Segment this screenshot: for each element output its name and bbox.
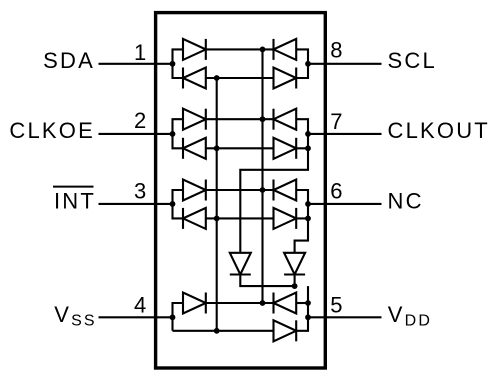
- diode D5a (pin5 to VDD rail): [274, 293, 297, 314]
- node pin7: [305, 131, 311, 137]
- wire pin 4 stub: [173, 303, 184, 331]
- svg-text:6: 6: [330, 179, 342, 204]
- svg-text:SDA: SDA: [43, 48, 95, 73]
- wire pin 5 VDD lead: [308, 316, 382, 318]
- svg-text:1: 1: [134, 40, 146, 65]
- diode D5b (VSS to pin5): [274, 320, 297, 341]
- svg-text:SCL: SCL: [388, 48, 437, 73]
- wire row1 lower (VSS rail): [206, 77, 274, 79]
- node VSS rail row2: [214, 145, 220, 151]
- wire pin 4 VSS lead: [99, 316, 173, 318]
- svg-text:7: 7: [330, 109, 342, 134]
- svg-text:NC: NC: [388, 188, 424, 213]
- diode D3a (pin3 to VDD): [183, 180, 206, 201]
- junction dots: [170, 47, 311, 334]
- svg-text:4: 4: [134, 293, 146, 318]
- wire row2 lower: [206, 147, 274, 149]
- wire pin 5 stub: [296, 302, 308, 304]
- VSS rail (vertical): [216, 78, 218, 331]
- diode D7a (pin7 to VDD): [274, 109, 297, 130]
- node pin5 upper tap: [305, 300, 311, 306]
- svg-text:CLKOE: CLKOE: [9, 118, 95, 143]
- node pin5: [305, 314, 311, 320]
- node VSS rail row1: [214, 75, 220, 81]
- node pin7 clamp tap: [305, 145, 311, 151]
- wire pin 7 stub: [296, 119, 308, 148]
- diode DA (CLKOUT clamp): [230, 253, 251, 275]
- node pin2: [170, 131, 176, 137]
- IC package outline: [156, 13, 326, 368]
- svg-text:2: 2: [134, 108, 146, 133]
- node pin6: [305, 201, 311, 207]
- wire pin 6 NC lead: [308, 203, 382, 205]
- node VDD rail row2: [260, 116, 266, 122]
- wire pin 8 SCL lead: [308, 63, 382, 65]
- wire pin 1 SDA lead: [99, 63, 173, 65]
- diode D8a (pin8 to VDD): [274, 39, 297, 60]
- node VDD rail row1: [260, 47, 266, 53]
- wire pin 1 stub: [173, 49, 184, 78]
- svg-text:3: 3: [134, 179, 146, 204]
- diode D1b (VSS to pin1): [183, 68, 206, 89]
- diode D2b (VSS to pin2): [183, 138, 206, 159]
- wire row4 upper (to VDD node): [206, 302, 274, 304]
- diode D6a (pin6 to VDD): [274, 180, 297, 201]
- node VSS rail row3: [214, 216, 220, 222]
- wire DA cathode down: [240, 275, 294, 287]
- diode D2a (pin2 to VDD): [183, 109, 206, 130]
- diode DB (NC clamp): [284, 253, 305, 275]
- diode D8b (VSS to pin8): [274, 68, 297, 89]
- node VDD rail bottom: [260, 300, 266, 306]
- node pin8: [305, 61, 311, 67]
- diode D7b (VSS to pin7): [274, 138, 297, 159]
- svg-text:5: 5: [330, 292, 342, 317]
- VDD rail (vertical): [261, 49, 263, 303]
- wire pin 7 CLKOUT lead: [308, 133, 382, 135]
- node VSS rail row4: [214, 328, 220, 334]
- wire pin 3 stub: [173, 190, 184, 218]
- node pin1: [170, 61, 176, 67]
- wire pin 8 stub: [296, 49, 308, 78]
- node VDD rail row3: [260, 187, 266, 193]
- diode D4 (VSS pin to VDD): [183, 293, 206, 314]
- wire pin 6 stub: [296, 190, 308, 218]
- node clamp cathodes join: [292, 283, 298, 289]
- wire DB cathode down: [294, 275, 296, 287]
- node pin3: [170, 201, 176, 207]
- diode D3b (VSS to pin3): [183, 208, 206, 229]
- node pin6 clamp tap: [305, 216, 311, 222]
- wire row2 upper: [206, 118, 274, 120]
- svg-text:CLKOUT: CLKOUT: [388, 118, 490, 143]
- wire row3 lower: [206, 217, 274, 219]
- diode D1a (pin1 to VDD): [183, 39, 206, 60]
- diode D6b (VSS to pin6): [274, 208, 297, 229]
- wire row3 upper: [206, 189, 274, 191]
- node pin4: [170, 314, 176, 320]
- wire row4 lower (VSS bus to pin5 diode): [173, 330, 274, 332]
- wire pin7 to middle diode DA: [240, 148, 308, 253]
- wire pin6 to middle diode DB: [295, 218, 308, 252]
- wire pin 2 stub: [173, 119, 184, 148]
- wire row1 upper (to VDD rail): [206, 48, 274, 50]
- svg-text:INT: INT: [54, 188, 96, 213]
- svg-text:8: 8: [330, 38, 342, 63]
- wire pin 3 INT lead: [99, 203, 173, 205]
- overline INT: [53, 186, 94, 188]
- wire pin 2 CLKOE lead: [99, 133, 173, 135]
